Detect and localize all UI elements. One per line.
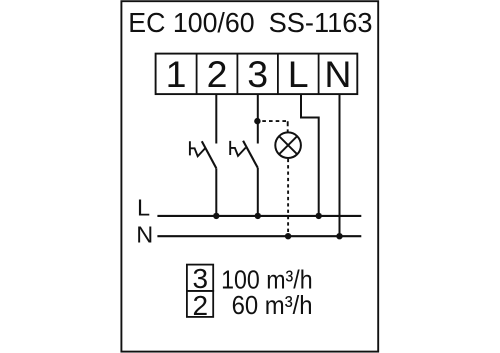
junction dot S1 / L rail [213, 213, 219, 219]
svg-text:3: 3 [247, 53, 268, 95]
svg-text:SS-1163: SS-1163 [269, 7, 373, 38]
svg-text:EC 100/60: EC 100/60 [128, 7, 254, 38]
svg-text:2: 2 [207, 53, 228, 95]
N rail wire [157, 235, 361, 237]
switch S2 manual actuator [230, 141, 246, 156]
L rail label [137, 195, 150, 221]
N rail label [136, 222, 153, 248]
title EC 100/60 [128, 7, 254, 38]
legend value 60 m3/h [232, 292, 313, 320]
legend digit 3 [193, 263, 209, 294]
junction dot N wire / N rail [336, 233, 342, 239]
terminal 1 label [166, 53, 187, 95]
switch S1 manual actuator [190, 141, 206, 156]
junction dot lamp link / N rail [285, 233, 291, 239]
terminal L label [288, 53, 309, 95]
L rail wire [157, 215, 361, 217]
legend value 100 m3/h [221, 266, 313, 294]
wire from terminal N to N rail [339, 94, 341, 236]
legend digit 2 [193, 290, 209, 321]
svg-text:N: N [324, 53, 351, 95]
dashed link lamp E1 to N rail [287, 159, 289, 236]
switch S1 blade [202, 141, 217, 168]
svg-text:L: L [137, 195, 150, 221]
svg-text:100 m³/h: 100 m³/h [221, 266, 313, 294]
terminal N label [324, 53, 351, 95]
terminal block X1 [156, 54, 358, 95]
svg-text:1: 1 [166, 53, 187, 95]
junction dot S2 / L rail [255, 213, 261, 219]
wire from switch S2 to L rail [257, 168, 259, 216]
wire from switch S1 to L rail [215, 168, 217, 216]
border frame [121, 1, 378, 351]
terminal 2 label [207, 53, 228, 95]
title SS-1163 [269, 7, 373, 38]
terminal 3 label [247, 53, 268, 95]
lamp E1 [275, 132, 301, 158]
wire from terminal L (jog around lamp) to L rail [301, 94, 319, 216]
svg-text:60 m³/h: 60 m³/h [232, 292, 313, 320]
svg-text:L: L [288, 53, 309, 95]
junction dot L wire / L rail [316, 213, 322, 219]
legend box speed 3 [187, 265, 213, 291]
wire from terminal 3 to switch S2 [257, 94, 259, 143]
node on wire 3 (junction to lamp) [254, 118, 260, 124]
legend box speed 2 [187, 291, 213, 317]
svg-text:N: N [136, 222, 153, 248]
wire from terminal 2 to switch S1 [215, 94, 217, 143]
svg-text:2: 2 [193, 290, 209, 321]
switch S2 blade [243, 141, 258, 168]
dashed link node to lamp E1 [262, 121, 287, 133]
